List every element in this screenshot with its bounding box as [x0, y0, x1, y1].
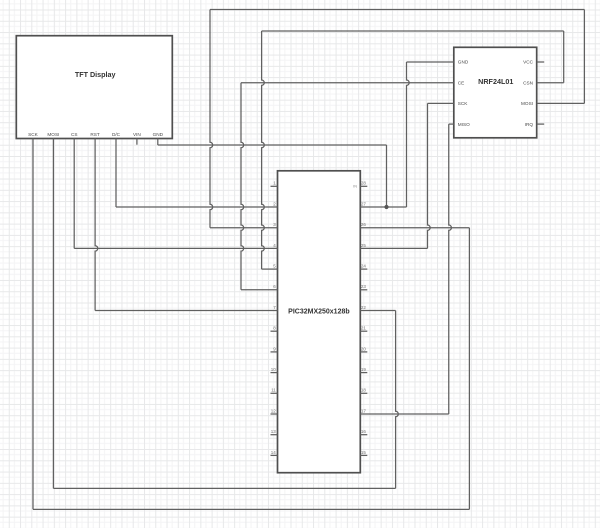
pin 8 stub (PIC left): [271, 330, 278, 332]
TFT Display block U2: [16, 36, 172, 139]
wire TFT RST to PIC pin 7 (vertical, hops CS wire): [95, 139, 98, 311]
svg-text:13: 13: [271, 429, 277, 434]
pin 23 stub (PIC right): [360, 289, 367, 291]
svg-text:26: 26: [361, 222, 367, 227]
svg-text:20: 20: [361, 346, 367, 351]
wire NRF MOSI stub east: [537, 102, 585, 104]
pin 21 stub (PIC right): [360, 330, 367, 332]
wire MISO to PIC pin 17: [360, 413, 448, 415]
svg-text:VCC: VCC: [523, 60, 534, 65]
wire SCK to PIC pin 26: [360, 227, 469, 229]
wire MOSI vertical up to pin 22 row (hops pin17 wire): [396, 311, 399, 489]
junction dot GND net: [384, 205, 388, 209]
pin 1 stub (PIC left): [271, 185, 278, 187]
svg-text:27: 27: [361, 201, 367, 206]
wire TFT CS to PIC pin 4 (vertical): [73, 139, 75, 249]
pin 16 stub (PIC right): [360, 434, 367, 436]
wire TFT RST to PIC pin 7 (horizontal): [95, 310, 277, 312]
wire NRF CE horizontal: [241, 82, 454, 84]
wire GND horizontal from TFT: [158, 144, 387, 146]
wire CE vertical down (hops GND, D/C, pin3, pin4 wires): [241, 83, 244, 290]
svg-text:CSN: CSN: [523, 80, 533, 85]
pin 20 stub (PIC right): [360, 351, 367, 353]
svg-text:TFT Display: TFT Display: [75, 70, 116, 79]
svg-text:12: 12: [271, 408, 277, 413]
wire NRF SCK to PIC pin 25: [360, 247, 427, 249]
svg-text:MISO: MISO: [458, 122, 470, 127]
wire MOSI bottom horizontal: [53, 487, 395, 489]
wire MOSI vertical down (hops GND, D/C wires): [210, 10, 213, 228]
svg-text:18: 18: [361, 388, 367, 393]
wire SCK right vertical up: [468, 228, 470, 510]
wire PIC pin 27 to GND riser: [360, 206, 406, 208]
svg-text:11: 11: [271, 388, 276, 393]
svg-text:NRF24L01: NRF24L01: [478, 77, 513, 86]
svg-text:25: 25: [361, 243, 367, 248]
wire TFT D/C to PIC pin 2 (horizontal): [116, 206, 278, 208]
wire GND to NRF GND pin: [407, 61, 454, 63]
svg-text:IRQ: IRQ: [525, 122, 534, 127]
pin 19 stub (PIC right): [360, 372, 367, 374]
pin 15 stub (PIC right): [360, 454, 367, 456]
svg-text:15: 15: [361, 450, 367, 455]
svg-text:PIC32MX250x128b: PIC32MX250x128b: [288, 308, 349, 315]
svg-text:21: 21: [361, 326, 367, 331]
pin 18 stub (PIC right): [360, 392, 367, 394]
wire TFT CS to PIC pin 4 (horizontal): [74, 247, 277, 249]
svg-text:IN: IN: [353, 184, 357, 188]
svg-text:24: 24: [361, 264, 367, 269]
svg-text:28: 28: [361, 181, 367, 186]
svg-text:MOSI: MOSI: [47, 132, 59, 137]
wire MOSI vertical up right edge: [583, 10, 585, 104]
PIC32MX250x128b block U1: [278, 171, 361, 473]
wire MISO vertical down (hops pin26 wire): [449, 124, 452, 414]
svg-text:SCK: SCK: [458, 101, 469, 106]
pin 24 stub (PIC right): [360, 268, 367, 270]
wire MOSI to PIC pin 22: [360, 310, 395, 312]
svg-text:14: 14: [271, 450, 277, 455]
wire MOSI top rail: [210, 9, 584, 11]
wire GND vertical to junction: [386, 145, 388, 207]
pin 10 stub (PIC left): [271, 372, 278, 374]
pin 14 stub (PIC left): [271, 454, 278, 456]
wire TFT GND stub down: [157, 139, 159, 146]
svg-text:10: 10: [271, 367, 277, 372]
pin 13 stub (PIC left): [271, 434, 278, 436]
svg-text:SCK: SCK: [28, 132, 39, 137]
svg-text:GND: GND: [458, 60, 469, 65]
wire NRF SCK vertical down (hops pin26 wire): [428, 103, 431, 248]
wire NRF SCK horizontal: [428, 102, 454, 104]
svg-text:GND: GND: [153, 132, 164, 137]
pin VCC stub (NRF, unconnected): [537, 61, 545, 63]
svg-text:17: 17: [361, 408, 367, 413]
pin 28 stub (PIC right): [360, 185, 367, 187]
svg-text:CE: CE: [458, 80, 465, 85]
pin IRQ stub (NRF, unconnected): [537, 123, 545, 125]
svg-text:CS: CS: [71, 132, 78, 137]
svg-text:22: 22: [361, 305, 367, 310]
wire SCK bottom horizontal: [33, 508, 469, 510]
wire TFT MOSI down left side: [52, 139, 54, 489]
pin 11 stub (PIC left): [271, 392, 278, 394]
pin 12 stub (PIC left): [271, 413, 278, 415]
svg-text:D/C: D/C: [112, 132, 121, 137]
wire CSN top rail: [262, 30, 564, 32]
NRF24L01 block U3: [454, 47, 537, 138]
wire NRF CSN stub east: [537, 82, 564, 84]
wire CSN vertical up: [563, 31, 565, 83]
wire CSN to PIC pin 5: [262, 268, 278, 270]
svg-text:19: 19: [361, 367, 367, 372]
svg-text:16: 16: [361, 429, 367, 434]
wire GND riser up (hops CE wire): [407, 62, 410, 207]
wire TFT SCK down left side: [32, 139, 34, 510]
pin 9 stub (PIC left): [271, 351, 278, 353]
svg-text:MOSI: MOSI: [521, 101, 533, 106]
wire TFT D/C to PIC pin 2 (vertical): [115, 139, 117, 208]
wire CSN vertical down (hops CE, GND, D/C, pin3, pin4 wires): [262, 31, 265, 269]
svg-text:RST: RST: [90, 132, 100, 137]
svg-text:VIN: VIN: [133, 132, 141, 137]
svg-text:23: 23: [361, 284, 367, 289]
pin VIN stub (TFT, unconnected): [136, 139, 138, 145]
wire MOSI to PIC pin 3: [210, 227, 278, 229]
wire NRF MISO horizontal: [449, 123, 454, 125]
wire CE to PIC pin 6: [241, 289, 278, 291]
